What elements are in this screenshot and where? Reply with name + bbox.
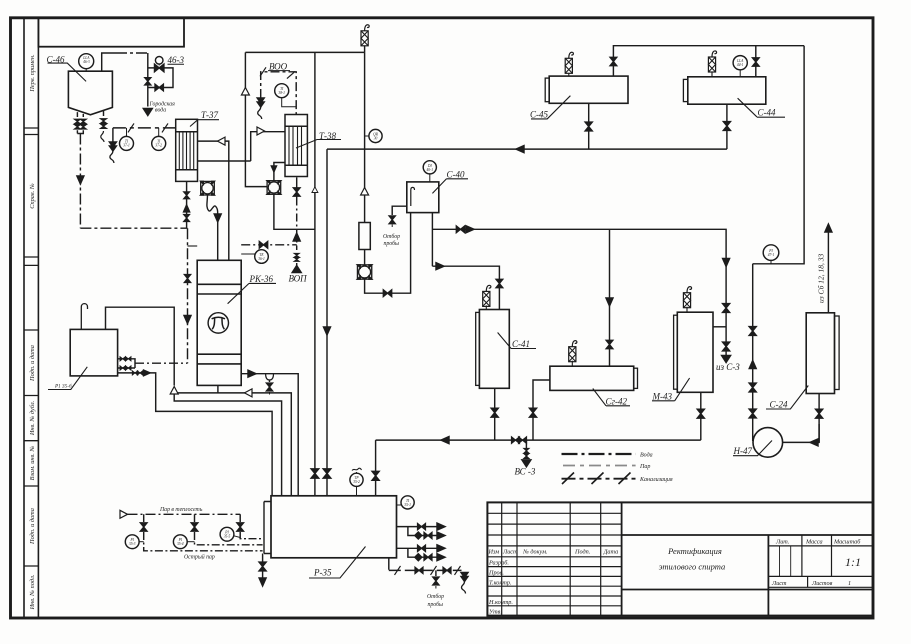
wire: T-37 upper right nozzle [198, 141, 229, 260]
svg-text:Листов: Листов [811, 580, 833, 587]
drop 3 [240, 514, 262, 538]
wire: C-45 bottom to return header [588, 103, 590, 149]
label C-46 with leader [48, 63, 87, 81]
valve on it [529, 408, 536, 417]
wire: C-24 bottom to pump [818, 394, 820, 443]
wire: R135-b bottom nozzle C to P-35 [118, 373, 273, 496]
VOP valves [294, 253, 300, 257]
instrument QR 30 [365, 129, 383, 142]
stub into RK-36 left [188, 245, 198, 247]
svg-text:36-1: 36-1 [258, 257, 265, 261]
svg-text:Пар в теплосеть: Пар в теплосеть [159, 507, 203, 513]
open right arrow on T-38 feed [257, 127, 265, 135]
instrument LLA 44-1 [733, 56, 747, 77]
svg-text:40-1: 40-1 [427, 168, 434, 172]
svg-text:Отбор: Отбор [427, 593, 444, 600]
svg-text:С-46: С-46 [47, 55, 66, 65]
drain symbol left end [112, 128, 114, 142]
wire: P-35 right nozzle 3 [397, 547, 438, 549]
wire: C-40 left sample nozzle [392, 206, 407, 215]
wire: manifold dash-dot to steam drop [135, 362, 188, 364]
pump H-47 [753, 428, 783, 458]
middle / right heavy dividers [622, 534, 873, 536]
flow arrow up below junction [293, 233, 300, 241]
flow arrow down on C-46 drain [77, 176, 84, 184]
svg-text:Канализация: Канализация [639, 477, 673, 483]
wire: C-44 bottom to return header [726, 104, 728, 149]
svg-text:Утв.: Утв. [489, 609, 502, 616]
valve on C-41 bottom [491, 408, 498, 417]
open up arrow on relief line [361, 188, 369, 196]
seal loop U and valve below line [266, 374, 274, 380]
wire: P-35 right nozzle 4 [408, 548, 437, 557]
legend water line [562, 453, 636, 455]
svg-text:из Сб 12, 18, 33: из Сб 12, 18, 33 [817, 253, 826, 303]
instrument TI 38-1 [275, 84, 297, 107]
svg-text:35-5: 35-5 [224, 535, 231, 539]
wire: T-37 lower right nozzle [198, 160, 251, 162]
BOO cooling water loop dash-dot [261, 72, 297, 115]
wire: branch y=229.3 to the right [432, 229, 726, 266]
vessel C-46 [68, 71, 112, 115]
slashes on BOO loop [260, 67, 266, 76]
drop 2 [195, 514, 263, 545]
control valve 46-3 body [155, 64, 164, 72]
valve pair on header [512, 437, 520, 443]
svg-text:Вода: Вода [640, 452, 653, 459]
wire: H-47 suction from C-24 [783, 419, 820, 442]
svg-text:35-1: 35-1 [404, 503, 411, 507]
flow arrow right on nozzle C [144, 370, 151, 376]
wire: C-44 overhead riser [755, 46, 757, 77]
wire: sewer line into T-37 left [113, 127, 176, 129]
C-46 bottom nozzle 2 [77, 114, 83, 134]
wire: P-35 bottom sample line [389, 558, 462, 571]
instrument TE 36-1 [241, 250, 268, 264]
svg-text:Отбор: Отбор [383, 233, 400, 240]
wire: steam dash-dot down from junction [187, 228, 189, 363]
faint instrument tags [82, 56, 774, 546]
reactor P-35 [264, 496, 397, 558]
flow arrow left on header [516, 146, 524, 153]
heat exchanger T-38 [285, 115, 307, 177]
wire: P-35 right nozzle 1 [397, 526, 438, 528]
valves on nozzle C [132, 371, 137, 375]
margin column lines [24, 18, 38, 618]
label C-24 leader [766, 386, 808, 410]
label C-41 leader [498, 333, 536, 349]
svg-text:пробы: пробы [428, 601, 444, 608]
control valve 46-3 actuator circle [155, 57, 163, 66]
vessel M-43 [674, 312, 713, 392]
wire: C-45 overhead to header [613, 46, 804, 76]
svg-text:пробы: пробы [384, 240, 400, 247]
svg-text:№ докум.: № докум. [522, 549, 548, 556]
label C-44 leader [738, 98, 785, 117]
outflow open arrow left [120, 510, 128, 518]
svg-text:Подп. и дата: Подп. и дата [29, 345, 36, 382]
wire: long vertical to P-35 (first) [314, 52, 316, 495]
valve bottom [749, 409, 756, 418]
svg-text:Инв. № дубл.: Инв. № дубл. [29, 401, 36, 436]
label C-40 leader [432, 179, 468, 194]
wire: pump down and right to C-40 bottom [365, 213, 411, 294]
valve on steam drop [184, 275, 190, 283]
valve top [749, 327, 756, 336]
svg-text:из С-3: из С-3 [716, 362, 740, 372]
vessel C-44 [683, 77, 765, 104]
dip tube inside C-40 [411, 187, 415, 206]
valve on C-44 bottom [723, 122, 730, 131]
sample drain symbol [461, 573, 468, 594]
valve on city water riser (upper) [145, 78, 151, 86]
wire: T-37 right bottom to pump [207, 180, 209, 182]
wire: C-44 overhead down right side [753, 46, 804, 264]
flow arrow down [606, 298, 613, 306]
control valve 46-3 bypass loop [148, 68, 173, 88]
valve on that line [383, 290, 391, 297]
wire: bottoms header y=440 [376, 439, 701, 441]
valves on nozzle 1 [74, 119, 81, 124]
relief valve on C-44 [711, 72, 713, 77]
wire: RK-36 bottoms draw-off right [241, 374, 298, 496]
wire: M-43 right nozzle to iz C-3 riser [713, 326, 726, 328]
valve on it [372, 471, 379, 480]
svg-text:Т.контр.: Т.контр. [489, 580, 512, 587]
flow arrow up [749, 361, 756, 369]
wire: C-46 top outlet to city water line [102, 53, 116, 71]
valve on M-43 bottom [697, 409, 704, 418]
drain at BOO left end [257, 98, 264, 119]
VOP inflow symbol [296, 266, 298, 268]
flow arrow down into M-43 riser [723, 259, 730, 267]
svg-text:Подп.: Подп. [574, 549, 590, 556]
valve on branch [456, 226, 464, 233]
valve mid [749, 383, 756, 392]
wire: R135-b right nozzle A [118, 359, 135, 368]
svg-text:35-4: 35-4 [177, 542, 184, 546]
svg-text:Сг-42: Сг-42 [606, 396, 628, 406]
relief valve on Cg-42 [571, 361, 573, 367]
wire: branch y=266 to C-41 [432, 266, 499, 309]
svg-text:С-45: С-45 [530, 110, 549, 120]
open arrow left on it [245, 389, 253, 397]
vessel Cg-42 [550, 366, 638, 390]
wire: second long vertical to P-35 [326, 149, 328, 496]
relief valve on C-45 [568, 73, 570, 76]
valve on C-24 bottom [815, 409, 822, 418]
wire: dash-dot continuation to valve station [116, 52, 148, 54]
valve on first vertical at P-35 [311, 469, 319, 478]
svg-text:ВОП: ВОП [289, 274, 308, 284]
pump at T-37 bottom [201, 181, 215, 195]
svg-text:этилового спирта: этилового спирта [659, 562, 726, 572]
C-46 bottom nozzle 3 (drain with S) [103, 111, 105, 117]
svg-text:47-1: 47-1 [768, 253, 775, 257]
label H-47 leader [733, 441, 772, 456]
rotameter [359, 223, 370, 250]
svg-text:44-1: 44-1 [737, 63, 744, 67]
slashes on sample line [395, 566, 401, 575]
svg-text:Н-47: Н-47 [733, 446, 753, 456]
relief valve on M-43 [686, 307, 688, 313]
svg-text:Масштаб: Масштаб [833, 539, 861, 546]
vent arrow up [825, 224, 832, 232]
column RK-36 [197, 260, 241, 385]
wire: riser bottom to y=401 line [174, 394, 281, 496]
margin box dividers [24, 128, 38, 566]
svg-text:Изм: Изм [488, 549, 500, 556]
svg-text:Пар: Пар [639, 464, 650, 470]
iz C-3 inflow arrow [722, 356, 731, 363]
label T-37 leader [190, 120, 219, 127]
wire: header to P-35 [375, 440, 377, 496]
svg-text:Н.контр.: Н.контр. [488, 599, 513, 606]
T-37 bottom left nozzle with valves [186, 181, 188, 228]
instrument PI 35-4 [173, 535, 194, 549]
open arrow into T-37 [218, 137, 226, 145]
svg-text:вода: вода [155, 107, 166, 114]
flow arrow right on it [436, 263, 444, 270]
flow arrow left on header [441, 437, 449, 444]
svg-text:1:1: 1:1 [845, 555, 861, 569]
wire: R135-b top line from P-35 vapour [106, 307, 175, 385]
open up arrow on overhead [241, 88, 249, 96]
wire: main return header y=149 [327, 148, 727, 150]
wire: rotameter to pump [364, 250, 366, 265]
wire: P-35 jacket drain [262, 554, 264, 579]
pump at T-38 bottom [267, 181, 281, 195]
svg-text:Лит.: Лит. [775, 539, 789, 546]
wire: pump discharge S down to RK-36 [207, 195, 218, 214]
BOO label underline [268, 70, 290, 72]
svg-text:Дата: Дата [603, 549, 619, 556]
wire: drain dash-dot horizontal to T-37 drain [80, 227, 187, 229]
valve on C-41 feed drop [496, 279, 503, 287]
svg-text:37-2: 37-2 [155, 144, 162, 148]
wire: C-41 bottom [494, 388, 496, 440]
wire: overhead header y=52.4 [245, 51, 364, 53]
svg-text:Р-35: Р-35 [313, 568, 332, 578]
wire: Cg-42 top feed from y=229 branch [609, 229, 611, 366]
valve on C-45 bottom [585, 122, 592, 131]
drop 1 [144, 514, 263, 551]
valve on C-45 overhead [610, 57, 617, 65]
valve on bypass return [155, 84, 163, 91]
svg-text:38-1: 38-1 [278, 91, 285, 95]
relief valve on overhead [364, 46, 366, 53]
valve on that line [259, 241, 267, 248]
svg-text:С-44: С-44 [758, 108, 777, 118]
flow arrow small up on it [312, 187, 318, 193]
flow arrow right [466, 226, 474, 233]
svg-text:Масса: Масса [805, 539, 823, 546]
sample valve [389, 216, 395, 224]
label C-45 leader [531, 96, 570, 119]
svg-text:Т-37: Т-37 [201, 110, 219, 120]
wire: line up from P-35 area to left arrow line [174, 393, 291, 496]
steam manifold: Par v teploset [128, 513, 241, 515]
valve on Cg-42 feed [606, 340, 613, 348]
instrument PI 35-3 [125, 535, 143, 549]
svg-text:С-24: С-24 [770, 400, 789, 410]
city water inflow arrow [143, 109, 152, 116]
open arrow up on riser [170, 387, 178, 395]
wire: C-24 vent riser [827, 231, 829, 313]
wire: M-43 bottom [700, 392, 702, 440]
label RK-36 leader [228, 283, 276, 303]
legend sewer line [562, 478, 636, 480]
instrument DI 40-1 [423, 161, 436, 182]
wire: VS-3 drain branch [525, 440, 527, 458]
svg-text:Разраб.: Разраб. [488, 560, 509, 567]
wire: T-38 pump discharge to main drop [274, 194, 315, 229]
vent hook on R135-b [81, 304, 87, 330]
svg-text:Инв. № подл.: Инв. № подл. [29, 575, 36, 611]
svg-text:Подп. и дата: Подп. и дата [29, 508, 36, 545]
valve on second vertical at P-35 [323, 469, 331, 478]
svg-text:35-2: 35-2 [353, 480, 360, 484]
wire: C-46 drain dash-dot down [79, 134, 81, 229]
flow arrow down on it [324, 327, 331, 335]
svg-text:1: 1 [848, 580, 851, 587]
wire: riser to T-38 feed [251, 132, 285, 161]
instrument LLA 46-3 on C-46 [79, 54, 94, 71]
label 46-3 underline [168, 63, 185, 65]
instrument TI 35-1 right top [397, 496, 415, 509]
svg-text:Т-38: Т-38 [319, 131, 337, 141]
svg-text:РК-36: РК-36 [249, 274, 274, 284]
svg-text:46-3: 46-3 [168, 55, 185, 65]
T-38 bottom nozzle down [296, 177, 298, 197]
svg-text:Городская: Городская [149, 101, 176, 108]
iz C-3 riser valves [725, 266, 727, 355]
valves on sample line [415, 567, 423, 573]
svg-text:С-41: С-41 [512, 339, 530, 349]
legend steam line [563, 465, 636, 467]
label R135-b leader [48, 367, 87, 390]
revision table verticals [502, 502, 601, 615]
node: city water riser [147, 53, 149, 107]
flow arrow right [248, 370, 256, 377]
svg-text:Перв. примен.: Перв. примен. [29, 54, 36, 92]
heat exchanger T-37 [176, 119, 198, 181]
wire: T-38 left bottom outlet to pump [274, 163, 285, 181]
svg-text:30: 30 [374, 137, 378, 141]
svg-text:Р1 35-б: Р1 35-б [54, 383, 72, 390]
margin rotated labels [29, 54, 36, 610]
svg-text:Лист: Лист [502, 549, 518, 556]
svg-text:Лист: Лист [771, 580, 787, 587]
wire: overhead vertical down to T-38 pump inlet [245, 52, 267, 186]
instrument PI on overhead [763, 245, 779, 264]
vessel R135-b [70, 329, 117, 376]
vessel C-24 [806, 313, 839, 394]
slash marks on sewer line [128, 123, 134, 132]
relief valve on C-41 [485, 305, 487, 309]
instrument TI 37-2 [152, 128, 166, 150]
wire: C-40 bottom right drop [431, 213, 433, 267]
vessel C-40 [407, 182, 439, 213]
svg-text:Пров.: Пров. [488, 570, 504, 577]
label T-38 leader [296, 140, 341, 149]
wire: VOP riser dash-dot [296, 198, 298, 269]
valve on C-44 overhead [752, 58, 759, 66]
wire: relief line down through analyser [364, 52, 366, 222]
svg-text:М-43: М-43 [652, 391, 673, 401]
wire: steam dash-dot from RK-36 to VOP riser [241, 244, 297, 246]
svg-text:ВОО: ВОО [269, 62, 288, 72]
wire: RK-36 bottom nozzle into transfer line [217, 385, 219, 393]
packing symbol circle [208, 313, 228, 333]
svg-text:Острый пар: Острый пар [184, 554, 215, 561]
flow arrow down on steam drop [184, 316, 191, 324]
wire: Cg-42 left outlet to bottoms header [533, 380, 550, 440]
svg-text:35-3: 35-3 [129, 542, 136, 546]
sample take-off branch [435, 570, 437, 576]
instrument PI 35-5 [220, 527, 240, 541]
svg-text:37-1: 37-1 [123, 144, 130, 148]
svg-text:Справ. №: Справ. № [29, 183, 36, 209]
svg-text:Ректификация: Ректификация [667, 546, 722, 556]
label Cg-42 leader [593, 389, 630, 406]
wire: P-35 right nozzle 2 [408, 527, 437, 536]
svg-text:Взам. инв. №: Взам. инв. № [29, 446, 36, 481]
svg-text:ВС -3: ВС -3 [515, 467, 536, 477]
C-46 bottom nozzle 1 [76, 112, 78, 133]
VS-3 outflow arrow [522, 460, 531, 467]
vessel C-45 [545, 76, 628, 103]
label P-35 leader [309, 547, 366, 579]
label M-43 leader [652, 378, 690, 401]
revision table horizontals [487, 513, 621, 606]
wire: drop to pump H-47 [752, 264, 754, 441]
instrument TI 37-1 [120, 128, 134, 150]
svg-text:46-3: 46-3 [83, 60, 90, 64]
pump on relief/sample line [357, 265, 371, 279]
vessel C-41 [476, 310, 510, 389]
svg-text:С-40: С-40 [447, 170, 466, 180]
wire: R135-b right nozzle B [118, 367, 135, 369]
top-left stamp box [38, 18, 184, 47]
flow arrow left into pump [810, 439, 818, 446]
instrument TP 35-2 on top [350, 468, 363, 496]
